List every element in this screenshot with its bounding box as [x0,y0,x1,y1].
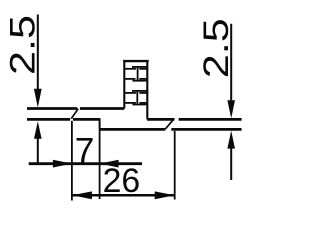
svg-text:2.5: 2.5 [4,15,43,75]
svg-text:7: 7 [75,131,95,170]
svg-text:26: 26 [103,162,141,200]
svg-text:2.5: 2.5 [197,18,236,78]
